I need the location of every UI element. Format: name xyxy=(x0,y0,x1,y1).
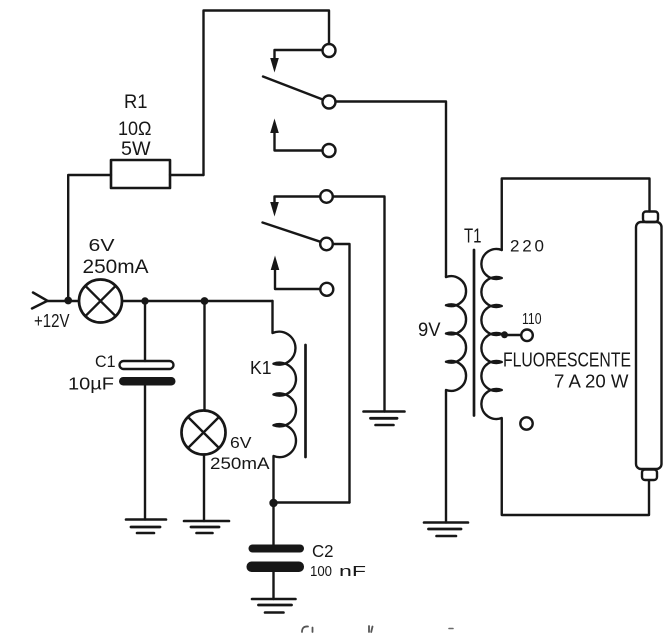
svg-text:9V: 9V xyxy=(418,319,441,341)
svg-text:C2: C2 xyxy=(312,541,334,561)
terminal circle 110 tap xyxy=(521,330,533,342)
relay contact set 2: top contact circle xyxy=(320,190,333,203)
terminal circle unused xyxy=(520,417,532,429)
tap junction dot 110 xyxy=(501,331,508,338)
wire +12V rail to K1 coil xyxy=(122,300,273,302)
capacitor C1 xyxy=(120,361,174,369)
wire contact2 common down to junction xyxy=(333,244,350,503)
svg-text:5W: 5W xyxy=(121,139,151,160)
wire R1 right lead xyxy=(170,174,204,176)
relay contact set 1: NC contact circle xyxy=(323,44,336,57)
relay coil K1 xyxy=(273,301,296,503)
svg-text:10Ω: 10Ω xyxy=(118,118,152,140)
wire secondary top to tube top xyxy=(502,179,650,251)
svg-text:R1: R1 xyxy=(124,91,148,113)
contact1 top stub wire xyxy=(275,50,323,59)
junction dot C1 branch xyxy=(141,297,148,304)
node +12V input chevron xyxy=(32,293,48,309)
ground under primary xyxy=(424,523,468,537)
ground under contact2 wire xyxy=(364,412,405,426)
tap wire xyxy=(507,334,521,336)
transformer T1 primary 9V winding xyxy=(446,276,466,522)
svg-text:K1: K1 xyxy=(250,358,272,378)
switch blade (contact set 2) xyxy=(263,223,321,242)
arrow up (contact set 2) xyxy=(271,256,280,271)
contact2 top stub wire xyxy=(275,197,321,203)
junction dot K1/C2/contact xyxy=(269,499,277,507)
svg-text:100: 100 xyxy=(310,564,332,580)
wire R1 left lead down to +12V rail xyxy=(68,175,111,300)
wire rail to LP2 xyxy=(203,301,205,411)
wire junction to switch common drop xyxy=(274,501,350,503)
svg-text:C1: C1 xyxy=(95,353,116,371)
contact2 bottom stub wire xyxy=(275,270,320,289)
contact1 bottom stub wire xyxy=(275,133,323,151)
wire contact1 common to transformer primary xyxy=(336,102,447,278)
lamp LP1 6V 250mA xyxy=(79,280,122,323)
T1 core xyxy=(473,250,476,416)
ground under C1 xyxy=(126,520,166,534)
wire C2 to ground xyxy=(272,572,274,599)
wire top rail from R1 right lead up and across to relay contact xyxy=(204,11,330,176)
svg-text:220: 220 xyxy=(510,237,544,256)
svg-text:+12V: +12V xyxy=(34,310,70,331)
svg-text:T1: T1 xyxy=(464,225,482,248)
fluorescent tube top cap xyxy=(643,212,658,223)
switch blade (contact set 1) xyxy=(263,77,323,100)
wire contact2 top to ground xyxy=(333,197,385,412)
wire C1 to ground xyxy=(144,386,146,520)
svg-text:10µF: 10µF xyxy=(68,374,114,394)
svg-text:250mA: 250mA xyxy=(210,455,270,473)
svg-text:nF: nF xyxy=(339,564,366,580)
wire rail to C1 xyxy=(144,301,146,361)
svg-text:FLUORESCENTE: FLUORESCENTE xyxy=(503,349,631,372)
junction dot at R1 branch xyxy=(64,297,72,305)
contact set 1 NO circle xyxy=(323,144,336,157)
transformer T1 secondary 220 winding xyxy=(481,249,649,515)
fluorescent tube body xyxy=(636,222,662,469)
arrow down (contact set 2) xyxy=(270,202,279,217)
svg-text:110: 110 xyxy=(522,311,542,328)
wire input to lamp xyxy=(48,300,80,302)
contact set 1 common circle xyxy=(323,96,336,109)
wire junction to C2 xyxy=(272,503,274,545)
svg-text:250mA: 250mA xyxy=(83,257,149,278)
fluorescent tube bottom cap xyxy=(642,470,657,481)
K1 core bar xyxy=(304,345,307,457)
resistor R1 xyxy=(111,160,170,188)
caption remnants at bottom edge xyxy=(302,626,313,632)
wire LP2 to ground xyxy=(203,455,205,522)
ground under LP2 xyxy=(184,521,229,533)
contact set 2 bottom circle xyxy=(320,283,333,296)
svg-text:6V: 6V xyxy=(89,235,115,255)
contact set 2 common circle xyxy=(320,238,333,251)
svg-text:6V: 6V xyxy=(230,435,252,452)
arrow down (contact set 1) xyxy=(270,58,279,73)
ground under C2 xyxy=(252,599,296,613)
lamp LP2 6V 250mA xyxy=(182,411,226,455)
capacitor C2 xyxy=(249,545,305,553)
svg-text:7 A 20 W: 7 A 20 W xyxy=(554,371,629,392)
junction dot LP2 branch xyxy=(201,297,209,305)
arrow up (contact set 1) xyxy=(270,119,279,134)
